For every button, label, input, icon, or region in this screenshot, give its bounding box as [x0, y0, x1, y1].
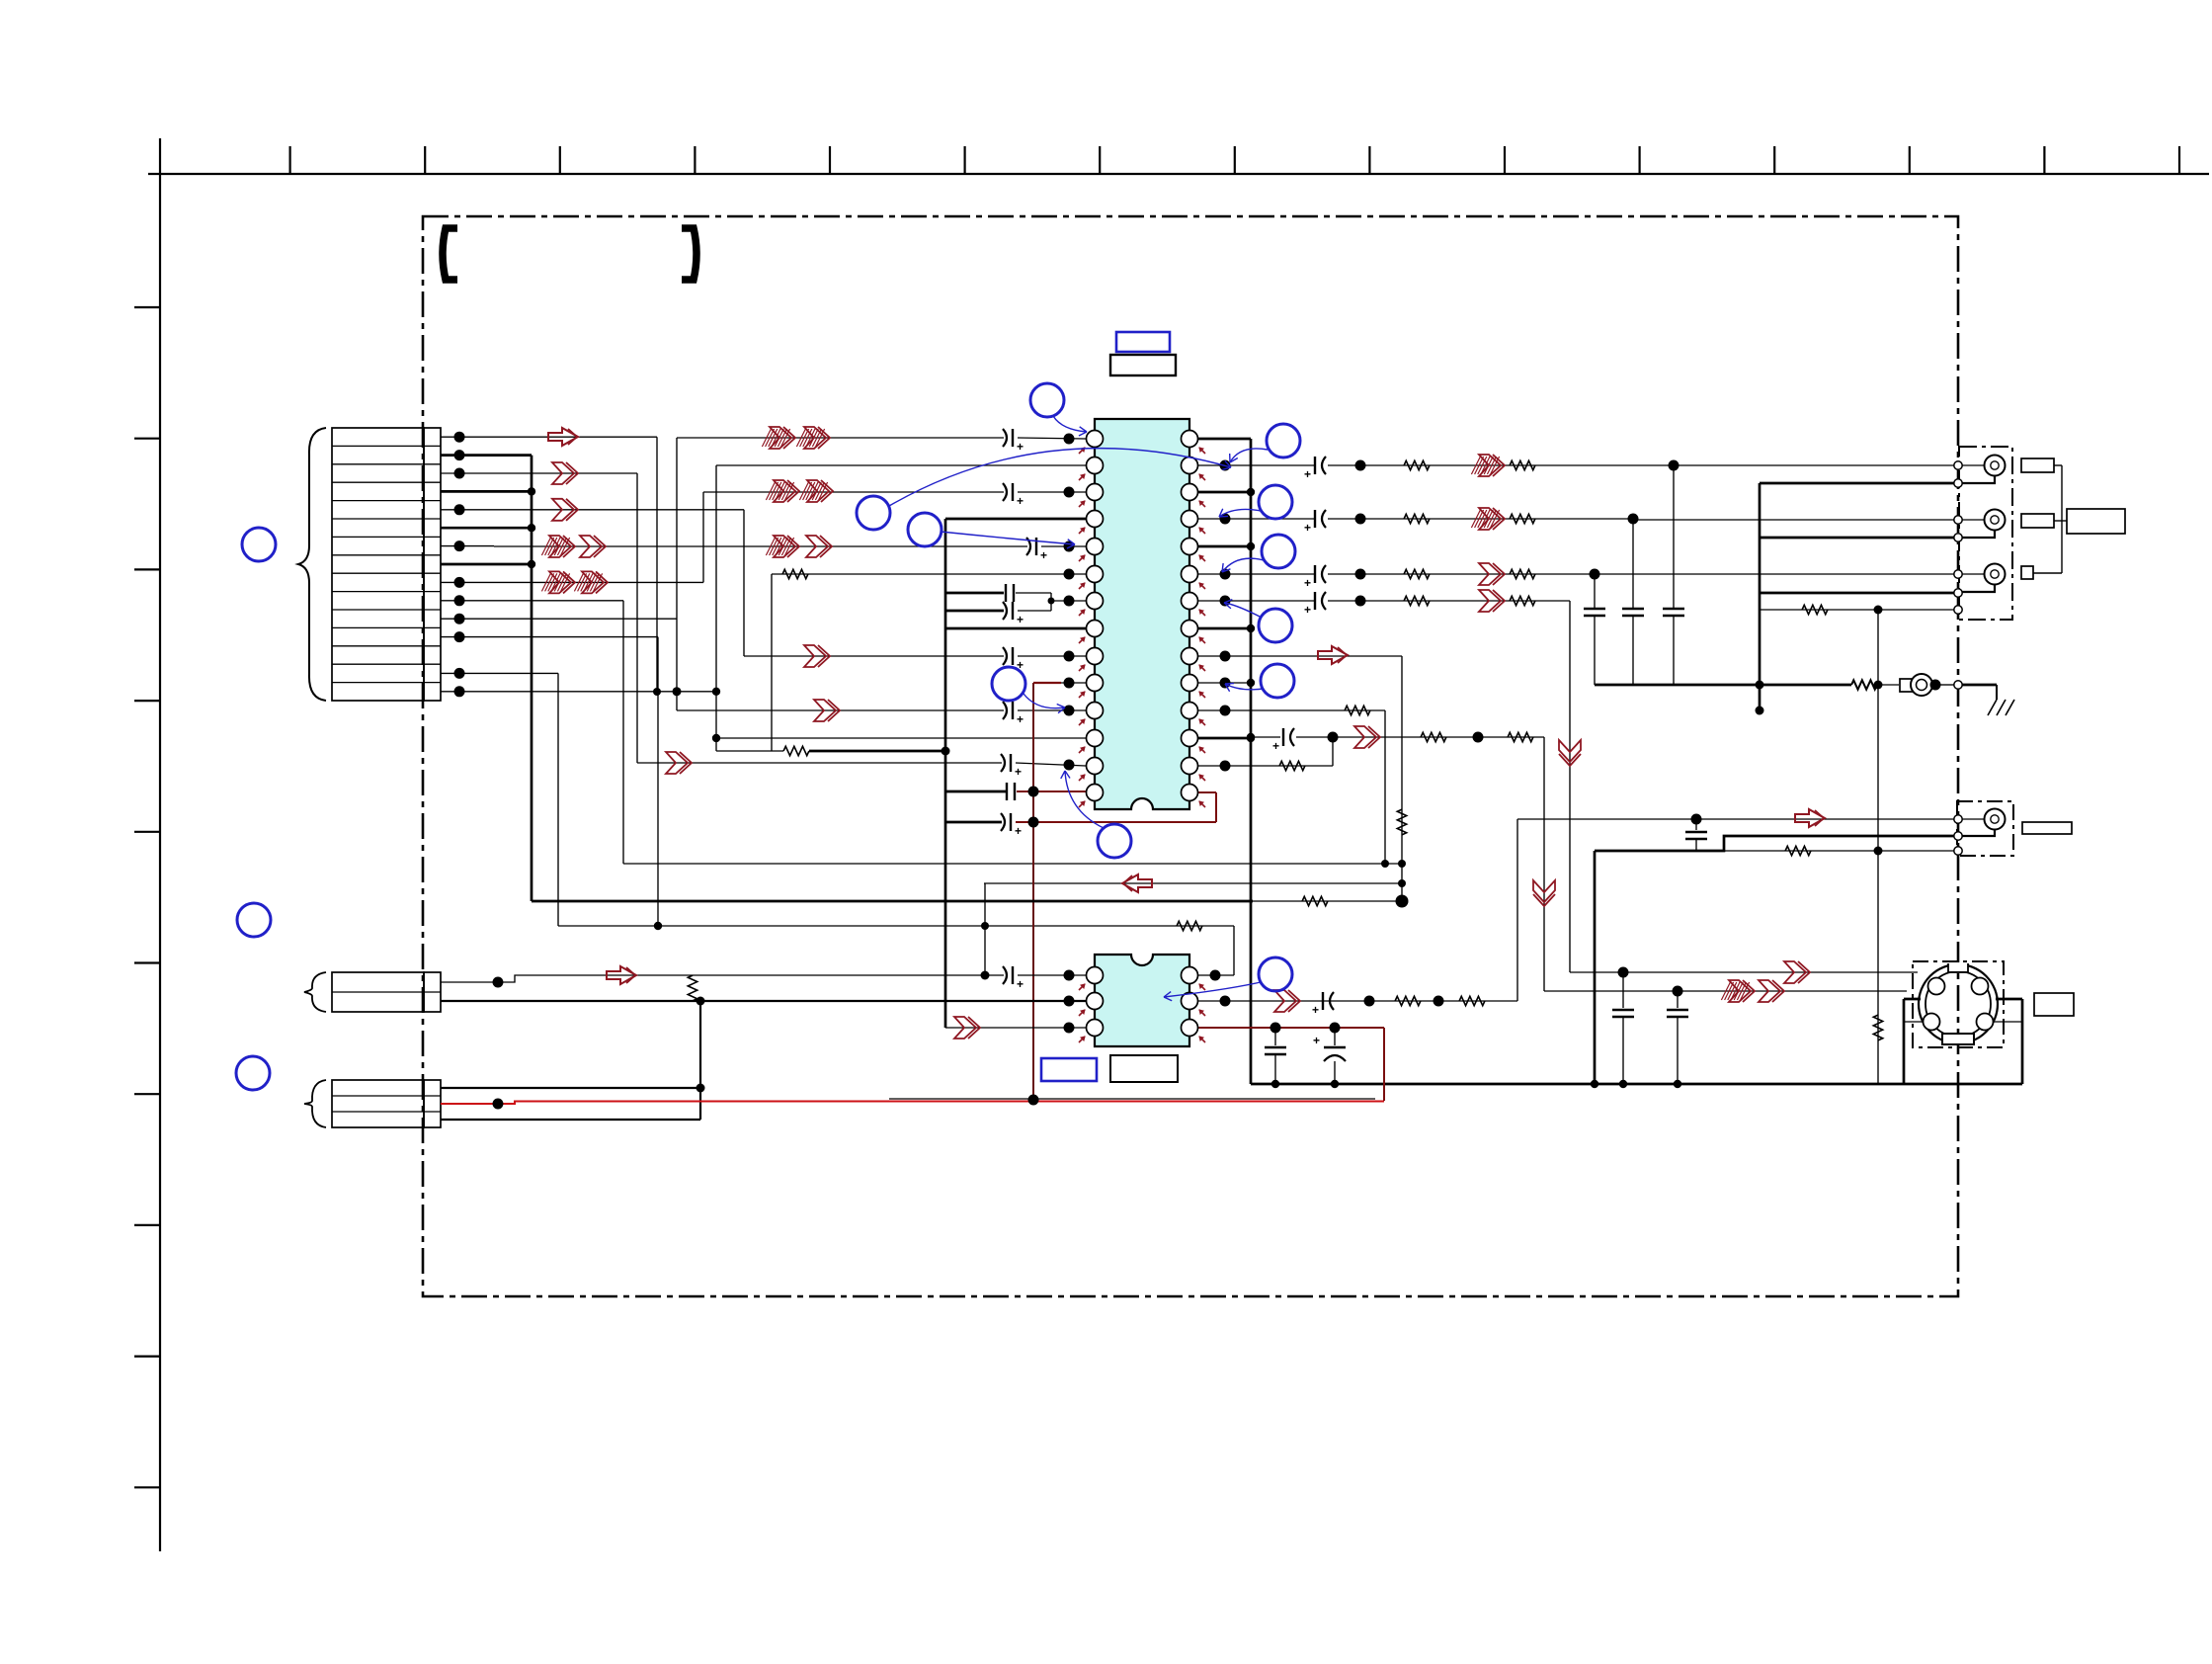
- svg-text:+: +: [1304, 576, 1311, 590]
- svg-text:+: +: [1304, 603, 1311, 617]
- svg-text:+: +: [1313, 1034, 1320, 1047]
- svg-text:+: +: [1312, 1003, 1319, 1017]
- svg-text:+: +: [1017, 977, 1024, 991]
- svg-text:+: +: [1304, 521, 1311, 535]
- svg-text:+: +: [1015, 765, 1022, 779]
- svg-text:+: +: [1040, 548, 1047, 562]
- svg-text:+: +: [1304, 467, 1311, 481]
- svg-text:+: +: [1017, 613, 1024, 626]
- svg-text:+: +: [1017, 440, 1024, 454]
- svg-text:+: +: [1272, 739, 1279, 753]
- svg-text:+: +: [1017, 712, 1024, 726]
- svg-text:+: +: [1017, 494, 1024, 508]
- svg-text:+: +: [1015, 824, 1022, 838]
